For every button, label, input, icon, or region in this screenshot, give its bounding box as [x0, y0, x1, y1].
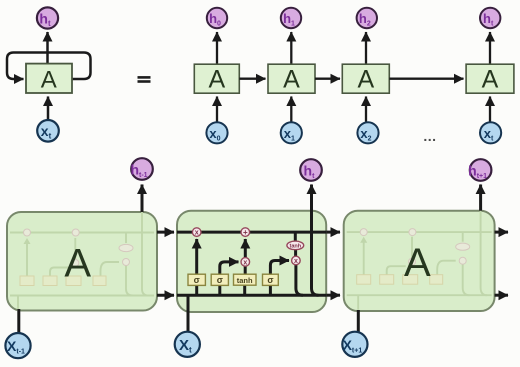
svg-text:σ: σ [194, 275, 200, 285]
wire right exit top [495, 231, 508, 234]
svg-text:σ: σ [267, 275, 273, 285]
gate tanh [234, 274, 257, 285]
node ht [480, 8, 500, 28]
wire A1 to A2 [315, 78, 340, 80]
ghost internals right [347, 211, 492, 310]
wire hidden state line [177, 294, 326, 297]
node xt [480, 122, 501, 143]
wire x1 to A1 [290, 97, 292, 122]
node h0 [207, 8, 227, 28]
cell At [466, 64, 514, 93]
gate sigma2 [211, 274, 228, 285]
svg-text:x: x [294, 258, 298, 265]
svg-text:A: A [64, 242, 91, 286]
node x1 [281, 122, 302, 143]
wire x_t to A [47, 97, 50, 120]
cell left LSTM [7, 212, 157, 311]
svg-text:x: x [243, 259, 247, 266]
ghost internals left [10, 212, 154, 311]
wire mult3 down join [296, 265, 303, 296]
wire right exit bottom [495, 294, 508, 297]
node h_t bottom [300, 159, 322, 181]
wire sigma2 stub [218, 285, 221, 295]
svg-text:x: x [195, 230, 199, 237]
wire A0 to h0 [216, 32, 218, 64]
svg-text:A: A [283, 66, 300, 94]
wire sigma3 stub [269, 285, 272, 295]
wire A2 to At long [389, 78, 463, 80]
svg-text:A: A [404, 241, 431, 285]
cell A folded [26, 64, 72, 93]
equals sign [138, 76, 151, 79]
wire cell state line [177, 231, 326, 234]
gate sigma3 [263, 274, 279, 285]
node x0 [206, 122, 227, 143]
wire h_t riser [312, 185, 319, 296]
svg-text:σ: σ [217, 275, 223, 285]
wire A to h_t [46, 32, 49, 64]
wire x2 to A2 [365, 97, 367, 122]
wire x_t feed [187, 295, 190, 332]
wire left cell to h_t-1 [141, 185, 144, 213]
wire right cell to h_t+1 [479, 185, 482, 211]
svg-text:A: A [482, 66, 499, 94]
wire x_t+1 to right cell [357, 310, 360, 332]
wire sigma1 to mult1 [195, 239, 198, 274]
svg-text:A: A [208, 66, 225, 94]
svg-text:tanh: tanh [289, 244, 301, 250]
node h_t+1 [470, 159, 492, 181]
wire middle to right top [326, 231, 340, 234]
wire x_t-1 to left cell [17, 309, 20, 334]
node h1 [281, 8, 301, 28]
wire left to middle top [157, 231, 174, 234]
node h_t folded [37, 7, 58, 28]
wire mult2 to add [244, 239, 247, 258]
wire loop [7, 53, 91, 80]
wire A0 to A1 [239, 78, 265, 80]
node x_t bottom [175, 332, 200, 357]
svg-text:+: + [243, 228, 248, 237]
op add [241, 228, 250, 237]
wire sigma3 to mult3 [270, 261, 289, 275]
wire sigma1 stub [195, 285, 198, 295]
wire A1 to h1 [290, 32, 292, 64]
wire tanh gate to mult2 [244, 266, 247, 274]
svg-text:...: ... [423, 128, 436, 144]
wire tanh oval to mult3 [294, 250, 297, 256]
op tanh oval [287, 241, 304, 250]
cell middle LSTM [177, 211, 326, 312]
node x_t+1 [342, 332, 367, 357]
cell A0 [194, 64, 239, 93]
cell A1 [268, 64, 315, 93]
wire cell state to tanh oval [294, 232, 297, 241]
wire tanh gate stub [243, 285, 246, 295]
wire middle to right bottom [326, 294, 340, 297]
wire left to middle bottom [157, 294, 174, 297]
node h_t-1 [131, 158, 153, 180]
op mult2 [241, 258, 250, 267]
cell right LSTM [344, 211, 495, 311]
cell A2 [342, 64, 389, 93]
gate sigma1 [188, 274, 205, 285]
wire A2 to h2 [365, 32, 367, 64]
node x_t folded [37, 120, 59, 142]
wire At to ht [489, 32, 491, 64]
node h2 [357, 8, 377, 28]
svg-text:A: A [357, 66, 374, 94]
node x_t-1 [5, 333, 30, 358]
op mult3 [292, 256, 301, 265]
node x2 [357, 122, 378, 143]
wire xt to At [489, 97, 491, 122]
wire x0 to A0 [216, 97, 218, 122]
svg-text:tanh: tanh [237, 276, 253, 285]
op mult1 [192, 228, 201, 237]
wire sigma2 to mult2 [220, 262, 239, 274]
svg-text:A: A [41, 67, 57, 94]
